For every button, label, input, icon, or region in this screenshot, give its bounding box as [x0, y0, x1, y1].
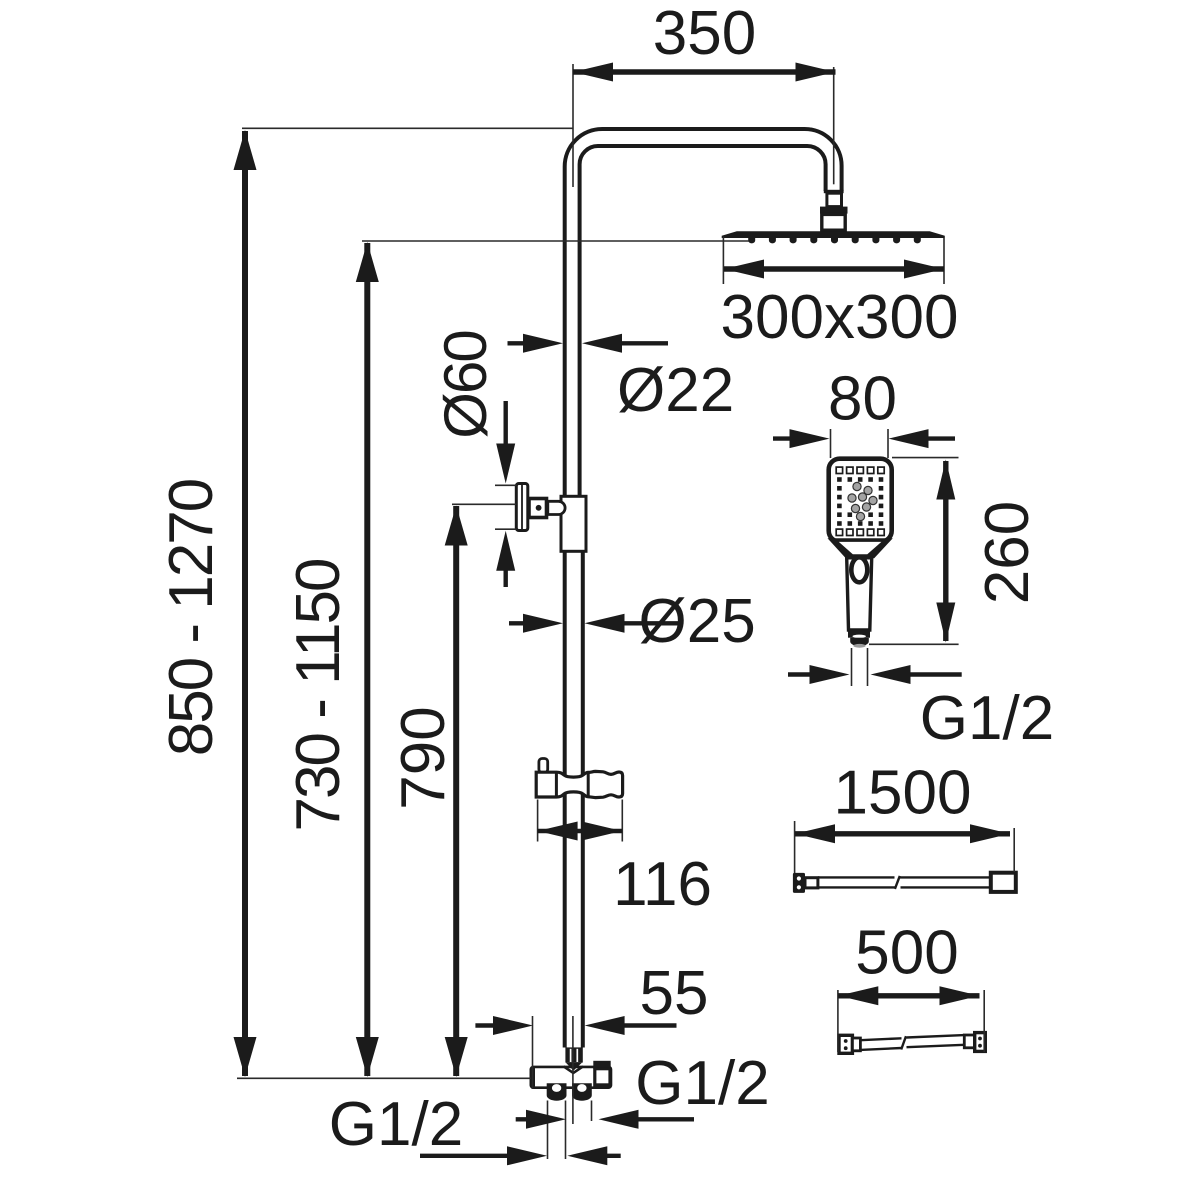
svg-text:260: 260	[973, 501, 1042, 604]
diverter valve left knob	[547, 1083, 567, 1100]
riser pipe right edge lower Ø25	[581, 496, 585, 1048]
shower hose 500 left connector	[852, 1038, 860, 1051]
dimension knobs lower arrows	[420, 1146, 621, 1165]
dimension Ø22 arrows	[508, 334, 669, 353]
dimension 790	[445, 506, 468, 1078]
svg-text:80: 80	[828, 365, 897, 434]
dimension 55 arrows	[475, 1016, 676, 1035]
dimension Ø25 arrows	[509, 614, 679, 633]
hand shower nozzles open squares	[836, 467, 884, 535]
svg-text:55: 55	[640, 959, 709, 1028]
wall bracket neck	[548, 501, 565, 514]
dimension 1500	[795, 824, 1010, 843]
extension lines	[237, 64, 1014, 1159]
hand shower head	[829, 459, 892, 542]
diverter valve outlet square	[595, 1069, 610, 1085]
shower hose 1500 left connector	[805, 878, 818, 888]
dimension 260	[936, 460, 955, 643]
shower hose 500 left fitting	[839, 1035, 852, 1053]
dimension 850-1270	[234, 130, 257, 1077]
hand shower center spray cluster	[848, 482, 877, 520]
svg-text:G1/2: G1/2	[329, 1090, 463, 1159]
shower hose 1500 right fitting	[991, 873, 1016, 892]
arm end joint band	[824, 190, 844, 193]
dimension knobs upper arrows	[516, 1110, 694, 1129]
dimension 350	[573, 63, 836, 82]
slider holder divider right	[587, 772, 590, 796]
wall bracket flange	[516, 484, 528, 531]
wall bracket screw dot	[536, 505, 542, 511]
shower hose 500 right fitting	[975, 1033, 986, 1052]
svg-text:116: 116	[613, 850, 712, 919]
hand shower nozzles solid squares	[837, 477, 883, 526]
wall bracket sleeve on pipe	[561, 496, 586, 551]
svg-text:730 - 1150: 730 - 1150	[284, 559, 353, 831]
dimension hand outlet G1/2 arrows	[788, 665, 962, 684]
riser pipe outer line (left edge + arm top + drop right)	[565, 129, 842, 1048]
svg-text:G1/2: G1/2	[920, 684, 1054, 753]
shower hose 500 right connector	[964, 1035, 974, 1048]
svg-text:300x300: 300x300	[721, 283, 959, 352]
arm end flange	[820, 207, 848, 214]
hand shower handle	[847, 558, 872, 630]
shower hose 500 tube	[860, 1035, 964, 1050]
diverter valve outlet cap	[593, 1061, 610, 1069]
diverter valve body	[531, 1067, 611, 1088]
dimension 500	[838, 986, 979, 1005]
svg-text:1500: 1500	[834, 759, 972, 828]
svg-text:500: 500	[855, 919, 958, 988]
diverter valve right knob	[572, 1083, 592, 1100]
svg-text:790: 790	[389, 706, 458, 809]
shower hose 1500 left fitting	[793, 873, 805, 893]
dimension 730-1150	[356, 242, 379, 1077]
svg-text:350: 350	[653, 0, 756, 68]
svg-text:Ø25: Ø25	[639, 587, 756, 656]
dimension 116	[538, 822, 622, 841]
diverter valve nut on pipe bottom	[565, 1047, 582, 1062]
riser pipe inner line upper (right edge Ø22 + arm bottom + drop left)	[580, 146, 826, 496]
wall bracket body	[529, 499, 547, 518]
arm end nut	[827, 193, 842, 206]
diverter valve funnel	[566, 1063, 582, 1071]
wall bracket flange inner line	[521, 485, 523, 530]
dimension 300x300	[724, 260, 944, 279]
slider holder knob	[539, 759, 548, 773]
slider holder divider left	[555, 772, 558, 797]
svg-text:Ø22: Ø22	[617, 356, 734, 425]
svg-text:Ø60: Ø60	[432, 331, 499, 439]
dimension Ø60 arrows	[496, 401, 515, 587]
overhead shower plate 300x300	[722, 231, 945, 238]
svg-text:G1/2: G1/2	[635, 1049, 769, 1118]
shower hose 1500 tube	[818, 876, 992, 889]
slider holder body	[536, 771, 622, 797]
overhead shower nozzle teeth	[748, 238, 921, 243]
dimension 80 arrows	[773, 429, 955, 448]
hand shower handle bottom band	[848, 629, 870, 637]
svg-text:850 - 1270: 850 - 1270	[157, 479, 226, 756]
hand shower handle oval slot	[851, 557, 867, 582]
arm end connector block	[822, 214, 845, 230]
hand shower taper collar	[828, 538, 893, 558]
hand shower handle cap	[850, 638, 869, 646]
